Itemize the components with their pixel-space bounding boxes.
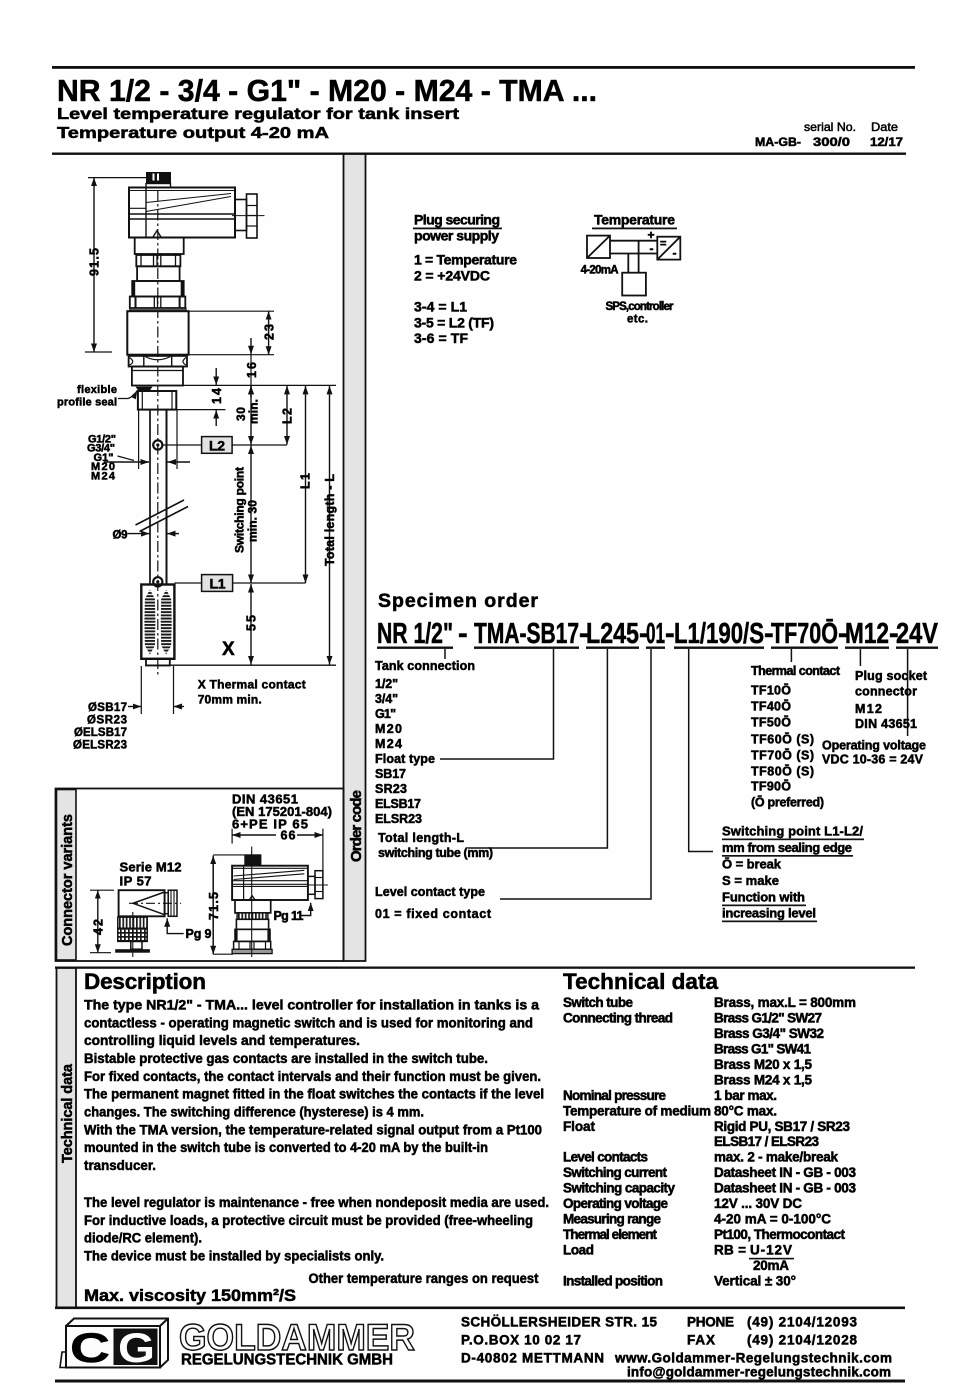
svg-text:M20: M20 [375,722,402,736]
svg-text:TF70Ō: TF70Ō [771,618,838,650]
svg-text:ELSB17 / ELSR23: ELSB17 / ELSR23 [714,1134,819,1149]
svg-text:Switching point: Switching point [233,467,247,553]
svg-text:Max. viscosity 150mm²/S: Max. viscosity 150mm²/S [84,1287,296,1305]
svg-text:mounted in the switch tube is: mounted in the switch tube is converted … [84,1140,488,1155]
code pointer float type [440,649,554,759]
svg-text:C: C [70,1324,110,1371]
device center line (dash-dot) [157,190,159,676]
thermal contact X reference line [146,664,336,666]
switching point dim line (continues to L1) [250,446,252,584]
float body [141,585,174,659]
svg-text:Pg 9: Pg 9 [186,927,212,941]
svg-text:L1/190/S: L1/190/S [674,618,764,650]
svg-text:increasing level: increasing level [722,906,816,921]
svg-text:Connecting thread: Connecting thread [563,1011,673,1026]
label switching point block [722,824,863,921]
wire + [610,240,657,242]
svg-text:TF40Ō: TF40Ō [751,700,791,714]
svg-text:24V: 24V [896,618,939,650]
dim 23 line [268,311,270,355]
svg-text:1 bar max.: 1 bar max. [714,1088,777,1103]
svg-text:(Ō preferred): (Ō preferred) [751,796,824,810]
svg-text:Specimen order: Specimen order [378,590,538,612]
dim 14 line [215,368,217,426]
svg-text:VDC 10-36 = 24V: VDC 10-36 = 24V [822,753,924,767]
DIN base plate [232,949,272,953]
svg-text:mm from sealing edge: mm from sealing edge [722,840,852,855]
svg-text:SB17: SB17 [375,767,406,781]
mid section [137,266,180,281]
svg-text:MA-GB-: MA-GB- [755,135,801,149]
float hatch left [144,590,155,655]
svg-text:contactless - operating magnet: contactless - operating magnetic switch … [84,1015,533,1030]
Pg 11 pointer [301,903,311,916]
svg-text:Level contacts: Level contacts [563,1150,648,1165]
svg-text:Vertical ± 30°: Vertical ± 30° [714,1273,796,1288]
dim 71.5 [213,855,245,954]
svg-text:Thermal contact: Thermal contact [751,664,841,678]
svg-text:Plug socket: Plug socket [855,669,928,683]
svg-text:S = make: S = make [722,873,779,888]
tube break symbol [136,500,189,532]
svg-text:Brass M24 x 1,5: Brass M24 x 1,5 [714,1072,812,1087]
svg-text:U-12V: U-12V [750,1242,792,1257]
svg-text:min. 30: min. 30 [246,500,260,542]
svg-text:ELSB17: ELSB17 [375,797,421,811]
sealing edge reference line [184,384,337,386]
thread bushing [138,391,176,410]
svg-text:12V ... 30V DC: 12V ... 30V DC [714,1196,802,1211]
wire - [610,253,657,255]
svg-text:-: - [650,242,654,256]
svg-text:70mm min.: 70mm min. [198,693,262,707]
svg-text:M12: M12 [845,618,889,650]
fraction bar for load formula [749,1258,794,1260]
DIN right plug [308,871,328,899]
svg-text:71.5: 71.5 [207,892,221,920]
L1 line to dim [233,582,306,584]
svg-text:Order code: Order code [348,790,365,862]
svg-text:Rigid PU, SB17 / SR23: Rigid PU, SB17 / SR23 [714,1119,850,1134]
SPS controller box [622,273,646,296]
svg-text:connector: connector [855,685,917,699]
thread size dim line with arrows [104,410,190,469]
code pointer switching point [689,649,713,852]
svg-text:(49) 2104/12093: (49) 2104/12093 [747,1315,857,1330]
svg-text:power supply: power supply [414,228,499,244]
svg-text:Date: Date [871,120,898,134]
svg-text:300/0: 300/0 [813,135,850,149]
L2 line to dim [232,444,287,446]
M12 stem [131,941,142,949]
svg-text:TMA-SB17: TMA-SB17 [474,618,579,650]
svg-text:G: G [118,1324,155,1371]
technical data gray bar [57,968,77,1308]
DIN neck [235,900,271,913]
svg-text:01 = fixed contact: 01 = fixed contact [375,907,492,921]
cable plug on right of head [232,194,265,238]
svg-text:ØSR23: ØSR23 [87,715,127,727]
svg-text:Brass G1" SW41: Brass G1" SW41 [714,1042,811,1057]
svg-text:www.Goldammer-Regelungstechnik: www.Goldammer-Regelungstechnik.com [614,1351,892,1366]
dim 42 [90,890,114,953]
svg-text:Operating voltage: Operating voltage [822,739,926,753]
svg-text:-: - [458,618,468,650]
lower collar [132,367,183,386]
svg-text:Description: Description [84,969,206,994]
connector variants gray bar [57,790,77,961]
svg-text:Level temperature regulator fo: Level temperature regulator for tank ins… [57,106,460,123]
svg-text:PHONE: PHONE [687,1315,734,1330]
svg-text:Technical data: Technical data [60,1063,76,1163]
technical data labels [563,995,711,1288]
svg-text:The device must be installed b: The device must be installed by speciali… [84,1249,384,1264]
svg-text:2 = +24VDC: 2 = +24VDC [414,268,490,284]
device top cap (black ribbed screw) [146,172,171,188]
svg-text:ELSR23: ELSR23 [375,812,422,826]
svg-text:L2: L2 [209,438,225,454]
svg-text:min.: min. [247,399,261,424]
svg-text:Serie M12: Serie M12 [120,860,182,875]
svg-text:serial No.: serial No. [804,120,856,134]
svg-text:12/17: 12/17 [870,135,903,149]
dim 91.5 line [85,178,146,352]
code pointer total length [468,649,607,848]
DIN mid section [236,919,268,929]
svg-text:Level contact type: Level contact type [375,885,485,899]
svg-text:changes. The switching differe: changes. The switching difference (hyste… [84,1105,424,1120]
header top rule [52,66,915,69]
connector head body [129,188,235,238]
svg-text:Brass, max.L = 800mm: Brass, max.L = 800mm [714,995,856,1010]
code pointer tank connection [444,649,446,659]
svg-text:Temperature of medium: Temperature of medium [563,1103,711,1118]
hex nut [129,356,187,367]
svg-text:Datasheet IN - GB - 003: Datasheet IN - GB - 003 [714,1181,856,1196]
M12 connector collar [165,893,169,914]
svg-text:ØELSB17: ØELSB17 [74,727,127,739]
svg-text:Datasheet IN - GB - 003: Datasheet IN - GB - 003 [714,1165,856,1180]
switching point L1 (reed contact) [153,577,162,586]
svg-text:-: - [673,246,677,260]
main body block (23mm) [127,311,188,355]
CG logo 3d box [60,1319,168,1368]
svg-text:etc.: etc. [627,314,648,326]
svg-text:The permanent magnet fitted in: The permanent magnet fitted in the float… [84,1087,544,1102]
svg-text:=: = [660,238,666,250]
DIN center line [251,847,253,957]
svg-text:For inductive loads, a protect: For inductive loads, a protective circui… [84,1213,533,1228]
M12 connector body [119,890,181,916]
footer top rule [55,1307,905,1310]
svg-text:80°C max.: 80°C max. [714,1103,777,1118]
svg-text:Float: Float [563,1119,596,1134]
L2 leader line [163,444,202,446]
code pointer level contact type [500,649,651,899]
dim L1 vertical line [305,386,307,583]
svg-text:Pg 11: Pg 11 [274,909,304,923]
svg-text:Brass M20 x 1,5: Brass M20 x 1,5 [714,1057,812,1072]
svg-text:Pt100, Thermocontact: Pt100, Thermocontact [714,1227,846,1242]
dim 16 line [250,338,252,397]
svg-text:Function with: Function with [722,890,805,905]
svg-text:REGELUNGSTECHNIK GMBH: REGELUNGSTECHNIK GMBH [181,1352,393,1369]
wire down right [638,241,640,273]
svg-text:Ō = break: Ō = break [722,857,782,872]
svg-text:Switching capacity: Switching capacity [563,1181,675,1196]
neck section [135,238,184,255]
svg-text:+: + [648,228,655,242]
svg-text:Installed position: Installed position [563,1273,663,1288]
L2 label box [202,437,233,454]
switching point L2 (reed contact) [153,440,162,449]
svg-text:Brass G1/2" SW27: Brass G1/2" SW27 [714,1011,822,1026]
technical data values [714,995,856,1288]
svg-text:diode/RC element).: diode/RC element). [84,1231,202,1246]
svg-text:The type NR1/2" - TMA... level: The type NR1/2" - TMA... level controlle… [84,998,539,1013]
svg-text:Technical data: Technical data [563,969,718,994]
DIN gland (black) [244,854,261,865]
svg-text:01: 01 [646,618,665,650]
svg-text:With the TMA version, the temp: With the TMA version, the temperature-re… [84,1122,542,1137]
switch tube [150,410,167,585]
svg-text:4-20mA: 4-20mA [581,265,619,277]
svg-text:Plug securing: Plug securing [414,212,500,228]
svg-text:Total length - L: Total length - L [323,474,337,566]
svg-text:Operating voltage: Operating voltage [563,1196,668,1211]
Pg 9 pointer [167,918,184,933]
svg-text:3-4 = L1: 3-4 = L1 [414,299,467,315]
float bottom stub [146,659,170,666]
clamp block (thick side walls) [132,281,184,297]
M12 center line [132,912,134,957]
svg-text:X: X [222,639,235,660]
description paragraph 1 [84,998,549,1264]
svg-text:4-20 mA = 0-100°C: 4-20 mA = 0-100°C [714,1212,831,1227]
svg-text:Switching point L1-L2/: Switching point L1-L2/ [722,824,863,839]
triangle mark under head [153,231,161,238]
svg-text:controlling liquid levels and: controlling liquid levels and temperatur… [84,1033,360,1048]
G-thread label pointer [118,456,135,461]
dim 30 min. line [250,386,252,445]
plug securing heading underline [413,228,502,230]
svg-text:G1": G1" [375,707,396,721]
thread bottom extension line [176,409,225,411]
CG logo right black cell [114,1329,158,1366]
svg-text:Connector variants: Connector variants [60,814,76,946]
svg-text:91.5: 91.5 [88,248,102,276]
svg-text:ØSB17: ØSB17 [88,702,127,714]
svg-text:Temperature: Temperature [594,212,675,228]
svg-text:Switch tube: Switch tube [563,995,633,1010]
svg-text:TF90Ō: TF90Ō [751,780,791,794]
svg-text:max. 2 - make/break: max. 2 - make/break [714,1150,838,1165]
svg-text:NR 1/2": NR 1/2" [377,618,453,650]
top plate of body block [130,308,186,311]
svg-text:3-5 = L2 (TF): 3-5 = L2 (TF) [414,315,494,331]
svg-text:TF80Ō (S): TF80Ō (S) [751,765,814,779]
svg-text:Tank connection: Tank connection [375,659,475,673]
M12 knurled body lower [118,928,147,941]
svg-text:TF60Ō (S): TF60Ō (S) [751,733,814,747]
svg-text:For fixed contacts, the contac: For fixed contacts, the contact interval… [84,1069,541,1084]
code pointer thermal contact [790,649,792,662]
svg-text:1 = Temperature: 1 = Temperature [414,252,517,268]
svg-text:switching tube (mm): switching tube (mm) [378,846,493,860]
svg-text:flexible: flexible [77,384,117,396]
code pointer operating voltage [907,649,909,736]
svg-text:D-40802 METTMANN: D-40802 METTMANN [461,1351,604,1366]
svg-text:Brass G3/4" SW32: Brass G3/4" SW32 [714,1026,824,1041]
DIN bottom ring [234,941,271,949]
float diameter extension lines [128,666,184,714]
wire down left [627,254,629,273]
svg-text:X Thermal contact: X Thermal contact [198,678,306,692]
svg-text:ØELSR23: ØELSR23 [73,740,127,752]
description section top rule [55,967,915,969]
svg-text:3-6 = TF: 3-6 = TF [414,330,468,346]
svg-text:Bistable protective gas contac: Bistable protective gas contacts are ins… [84,1051,488,1066]
dim total length L vertical line [329,386,331,665]
footer bottom rule [55,1380,905,1383]
dim diameter 9 arrows [128,533,180,535]
ribbed ring 2 [130,297,186,309]
order code text [377,618,939,650]
dim 55 line [250,584,252,665]
svg-text:Total length-L: Total length-L [378,831,464,845]
svg-text:66: 66 [281,829,296,843]
transmitter symbol (4-20mA) [587,236,610,258]
svg-text:NR 1/2 - 3/4 - G1" - M20 - M24: NR 1/2 - 3/4 - G1" - M20 - M24 - TMA ... [57,74,597,108]
dim L2 vertical line [286,386,288,445]
svg-text:20mA: 20mA [753,1258,789,1273]
L1 leader line [175,582,202,584]
svg-text:The level regulator is mainten: The level regulator is maintenance - fre… [84,1195,549,1210]
svg-text:3/4": 3/4" [375,692,398,706]
svg-text:TF10Ō: TF10Ō [751,684,791,698]
order code vertical bar [344,154,366,961]
order code underlines [377,647,938,649]
svg-text:P.O.BOX 10 02 17: P.O.BOX 10 02 17 [461,1333,581,1348]
L1 label box [202,575,233,592]
ribbed ring 1 [136,255,180,266]
svg-text:Other temperature ranges on re: Other temperature ranges on request [309,1271,539,1286]
svg-text:IP 57: IP 57 [120,874,152,889]
svg-text:1/2": 1/2" [375,677,398,691]
svg-text:TF70Ō (S): TF70Ō (S) [751,749,814,763]
svg-text:L1: L1 [210,576,226,592]
M12 connector ribbed nut [168,890,177,916]
svg-text:RB =: RB = [714,1242,746,1257]
svg-text:profile seal: profile seal [57,397,117,409]
svg-text:(49) 2104/12028: (49) 2104/12028 [747,1333,857,1348]
dim 23 extension lines [189,310,274,312]
connector variants box [56,789,344,962]
svg-text:L245: L245 [586,618,639,650]
svg-text:Nominal pressure: Nominal pressure [563,1088,666,1103]
svg-text:SCHÖLLERSHEIDER STR. 15: SCHÖLLERSHEIDER STR. 15 [461,1315,657,1330]
svg-text:SPS,controller: SPS,controller [606,301,675,313]
M12 knurled body upper [118,917,147,928]
svg-text:Temperature output 4-20 mA: Temperature output 4-20 mA [57,125,330,142]
footer address column [461,1315,892,1380]
DIN ribbed ring [237,913,268,919]
svg-text:Thermal element: Thermal element [563,1227,658,1242]
dim 66 [232,829,323,892]
svg-text:6+PE IP 65: 6+PE IP 65 [232,817,308,832]
svg-text:Measuring range: Measuring range [563,1212,661,1227]
svg-text:M12: M12 [855,702,882,716]
svg-text:Ø9: Ø9 [113,530,128,542]
label tank connection [375,659,928,921]
float hatch right [161,590,172,655]
code pointer plug socket [859,649,861,666]
header second rule [52,153,906,155]
svg-text:Float type: Float type [375,752,435,766]
svg-text:SR23: SR23 [375,782,407,796]
temperature heading underline [592,228,677,230]
svg-text:DIN 43651: DIN 43651 [855,717,917,731]
DIN lower block [235,929,270,941]
seal label pointer [118,391,137,399]
M12 base plate [115,949,150,953]
svg-text:transducer.: transducer. [84,1158,156,1173]
svg-text:M24: M24 [375,737,402,751]
flexible profile seal (dark wedge) [136,387,153,391]
svg-text:FAX: FAX [687,1333,715,1348]
DIN connector body [232,866,308,900]
svg-text:Load: Load [563,1242,594,1257]
svg-text:info@goldammer-regelungstechni: info@goldammer-regelungstechnik.com [627,1365,891,1380]
svg-text:M24: M24 [91,470,116,482]
svg-text:TF50Ō: TF50Ō [751,716,791,730]
receiver symbol with = and - [657,237,680,260]
svg-text:Switching current: Switching current [563,1165,668,1180]
